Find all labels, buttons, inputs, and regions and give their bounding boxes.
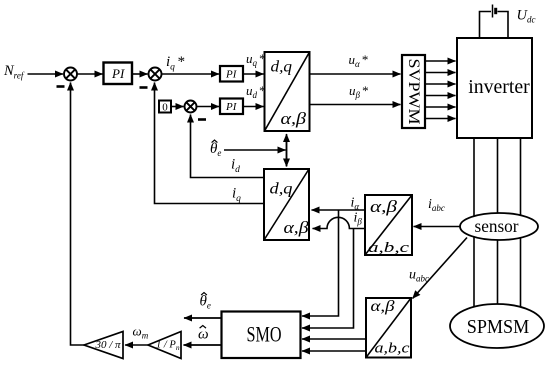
svg-text:a,b,c: a,b,c — [368, 240, 409, 256]
wire S3 to PI3 — [197, 106, 220, 108]
wire theta spine double arrow between T1 and T2 — [286, 134, 288, 166]
block SMO sliding mode observer — [222, 312, 301, 359]
svg-text:iq: iq — [232, 186, 241, 205]
svg-text:SPMSM: SPMSM — [467, 316, 530, 338]
svg-text:SMO: SMO — [247, 322, 282, 347]
svg-text:a,b,c: a,b,c — [375, 341, 410, 357]
wire ialpha T3 to T2 — [312, 209, 366, 211]
svg-text:SVPWM: SVPWM — [405, 59, 422, 125]
gain block 30/pi — [84, 332, 123, 359]
wire ibeta T3 to T2 with hop — [313, 217, 366, 228]
wire Nref to summer S1 — [28, 73, 64, 75]
svg-text:ud*: ud* — [246, 83, 266, 100]
wire ubeta T4 to SMO — [302, 350, 366, 352]
svg-text:uabc: uabc — [409, 268, 429, 284]
svg-text:α,β: α,β — [370, 197, 398, 216]
svg-text:ωm: ωm — [133, 324, 149, 341]
block PI3 (d current regulator) — [220, 99, 243, 115]
block T4 abc to alpha-beta voltage transform — [366, 298, 411, 358]
wire ZERO to summer S3 — [171, 106, 184, 108]
block ZERO reference — [159, 101, 171, 114]
minus sign at S1 — [57, 85, 65, 88]
wire ialpha branch down to SMO — [302, 210, 339, 316]
gain block 1/Pn — [148, 332, 181, 359]
svg-text:0: 0 — [162, 102, 168, 114]
svg-text:PI: PI — [225, 101, 238, 113]
wire 1/Pn to 30/pi — [125, 344, 148, 346]
block PI1 (speed regulator) — [104, 63, 133, 85]
wire theta-hat-e into transform spine — [224, 149, 286, 151]
wire phase A inverter to SPMSM — [473, 138, 475, 312]
svg-text:sensor: sensor — [475, 216, 519, 236]
minus sign at S2 — [140, 86, 148, 89]
wire DC link right leg — [498, 12, 509, 39]
svg-text:iα: iα — [351, 196, 360, 212]
svg-text:α,β: α,β — [371, 298, 395, 315]
wire theta-hat output of SMO — [184, 317, 222, 319]
summer S3 — [185, 101, 197, 113]
wire PI1 to summer S2 — [132, 73, 148, 75]
wire PI3 to block T1 — [243, 106, 264, 108]
battery long plate — [492, 5, 494, 18]
block inverter — [457, 38, 532, 138]
wire DC link left leg — [480, 12, 492, 39]
svg-text:30 / π: 30 / π — [95, 339, 122, 351]
svg-text:iabc: iabc — [428, 197, 445, 213]
SPMSM ellipse — [450, 304, 544, 348]
svg-text:ω: ω — [198, 327, 209, 343]
wire speed feedback 30/pi up to summer S1 — [71, 83, 85, 346]
wire iq feedback T2 to summer S2 — [155, 83, 265, 204]
block T1 dq to alpha-beta transform — [265, 52, 310, 131]
svg-text:uβ*: uβ* — [349, 83, 368, 100]
svg-text:PI: PI — [225, 69, 238, 81]
wire PI2 to block T1 — [243, 73, 264, 75]
block PI2 (q current regulator) — [220, 66, 243, 82]
svg-text:α,β: α,β — [281, 109, 307, 128]
svg-text:Udc: Udc — [517, 8, 536, 25]
wire S1 to PI1 — [77, 73, 103, 75]
wire omega-hat SMO to 1/Pn — [184, 344, 222, 346]
minus sign at S3 — [198, 118, 206, 121]
svg-text:uq*: uq* — [246, 51, 266, 68]
wire uabc sensor to block T4 — [413, 238, 468, 299]
wire ualpha T4 to SMO — [302, 338, 366, 340]
block T3 abc to alpha-beta current transform — [365, 195, 412, 256]
wire T1 ualpha* to SVPWM — [310, 73, 401, 75]
svg-text:PI: PI — [111, 66, 125, 81]
block T2 alpha-beta to dq transform — [264, 169, 309, 240]
svg-text:Nref: Nref — [3, 63, 25, 81]
wire phase B inverter to SPMSM — [497, 138, 499, 312]
svg-text:inverter: inverter — [468, 76, 530, 98]
svg-text:α,β: α,β — [284, 218, 310, 237]
wire id feedback T2 to summer S3 — [191, 115, 265, 178]
sensor ellipse — [460, 213, 538, 240]
wire S2 to PI2 — [162, 73, 220, 75]
svg-text:id: id — [231, 157, 240, 176]
wire T1 ubeta* to SVPWM — [310, 104, 401, 106]
summer S2 — [149, 68, 162, 81]
wire ibeta branch down to SMO — [302, 229, 354, 329]
svg-text:iq*: iq* — [166, 54, 185, 73]
wire phase C inverter to SPMSM — [520, 138, 522, 312]
svg-text:θe: θe — [210, 141, 221, 158]
svg-text:θe: θe — [200, 294, 211, 311]
svg-text:d,q: d,q — [270, 181, 293, 198]
svg-text:iβ: iβ — [354, 211, 363, 227]
svg-text:d,q: d,q — [271, 59, 293, 76]
svg-text:uα*: uα* — [349, 52, 369, 69]
battery short plate — [494, 8, 497, 14]
wires SVPWM to inverter (6 gate signals) — [425, 61, 456, 119]
summer S1 — [64, 68, 77, 81]
wire iabc sensor to block T3 — [414, 226, 461, 228]
block SVPWM — [402, 55, 425, 128]
